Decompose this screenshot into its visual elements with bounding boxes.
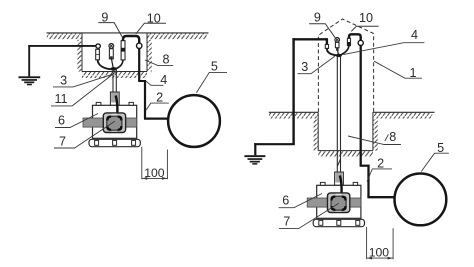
feed wire drop to ground symbol (fig2) bbox=[254, 143, 256, 155]
label 4 (fig2) bbox=[343, 28, 424, 55]
svg-text:5: 5 bbox=[211, 60, 218, 74]
grounding wire horizontal (fig1) bbox=[28, 45, 96, 47]
electrode 9 head (fig1) bbox=[109, 44, 114, 49]
svg-text:4: 4 bbox=[160, 73, 167, 87]
housing bottom notch bbox=[111, 130, 117, 132]
housing top notch bbox=[111, 114, 117, 116]
wire 2 vertical run (fig2) bbox=[367, 165, 369, 198]
label 7 (fig1) bbox=[54, 121, 115, 148]
left insulator sleeve (fig2) bbox=[325, 45, 328, 49]
wire 2 from terminal 10 down (fig1) bbox=[138, 48, 140, 81]
terminal circle 10 (fig1) bbox=[137, 43, 142, 48]
wire 2 step right (fig2) bbox=[360, 165, 369, 167]
convergence node of electrode wires (fig1) bbox=[110, 67, 117, 71]
cable entry tube bbox=[110, 92, 119, 105]
wire 2 from terminal 10 down shaft (fig2) bbox=[360, 45, 362, 165]
right insulator sleeve (fig1) bbox=[121, 41, 125, 60]
label 3 (fig2) bbox=[298, 56, 335, 74]
terminal circle of grounding wire (fig1) bbox=[96, 44, 100, 48]
black cable into housing bbox=[116, 96, 118, 113]
svg-text:3: 3 bbox=[301, 60, 308, 74]
dimension arrows (fig2) bbox=[367, 257, 394, 260]
thick wire loop from sleeve to terminal 10 (fig1) bbox=[123, 36, 139, 43]
svg-text:100: 100 bbox=[369, 246, 390, 260]
dimension arrows (fig1) bbox=[142, 177, 168, 180]
svg-text:100: 100 bbox=[144, 166, 165, 180]
label 10 (fig1) bbox=[136, 11, 166, 34]
label 3 (fig1) bbox=[53, 74, 112, 88]
wire 2 step right (fig1) bbox=[138, 80, 145, 82]
terminal circle 10 (fig2) bbox=[358, 40, 363, 45]
svg-text:9: 9 bbox=[314, 11, 321, 25]
thick wire loop to terminal 10 (fig2) bbox=[349, 34, 361, 40]
gland plug (gray) bbox=[111, 93, 118, 103]
feed wire corner into left sleeve (fig2) bbox=[326, 39, 328, 45]
pit bottom earth hatching bbox=[82, 72, 147, 78]
machine body bbox=[93, 105, 137, 138]
wire 2 horizontal run to device 5 (fig2) bbox=[367, 196, 394, 198]
pit right wall hatch ticks bbox=[147, 40, 152, 72]
base plate slot 3 bbox=[132, 140, 136, 145]
shaft bottom earth hatching bbox=[318, 151, 373, 157]
label 6 (fig1) bbox=[55, 114, 98, 128]
label 9 (fig1) bbox=[98, 11, 122, 38]
label 10 (fig2) bbox=[351, 11, 378, 31]
middle insulator sleeve (fig2) bbox=[335, 42, 339, 50]
label 2 (fig2) bbox=[367, 156, 392, 181]
body top tab left bbox=[96, 102, 101, 105]
left electrode curved wire bbox=[98, 60, 111, 70]
right electrode curved wire (fig2) bbox=[341, 46, 349, 55]
ground symbol (fig1) bbox=[19, 76, 41, 85]
svg-text:2: 2 bbox=[156, 91, 163, 105]
label 1 (fig2) bbox=[374, 61, 422, 80]
label 8 (fig2) bbox=[348, 130, 401, 145]
device 5 circle (fig1) bbox=[168, 95, 220, 147]
middle insulator sleeve (fig1) bbox=[109, 49, 113, 59]
machine unit 6/7 (fig1) bbox=[83, 92, 140, 147]
dashed enclosure 1 (fig2) bbox=[318, 19, 373, 112]
base plate slot 2 bbox=[113, 140, 117, 145]
shaft left wall hatch ticks bbox=[314, 119, 319, 151]
shaft band (gray) bbox=[83, 118, 137, 127]
dimension 100 line (fig1) bbox=[142, 177, 168, 179]
label 5 (fig2) bbox=[421, 141, 449, 172]
device 5 circle (fig2) bbox=[395, 174, 447, 226]
svg-text:10: 10 bbox=[359, 11, 373, 25]
svg-text:8: 8 bbox=[162, 53, 169, 67]
pit bottom line bbox=[82, 71, 147, 73]
svg-text:8: 8 bbox=[389, 130, 396, 144]
dimension 100 extension lines (fig1) bbox=[142, 147, 168, 180]
svg-text:2: 2 bbox=[377, 156, 384, 170]
conductor pair twist mark (fig2) bbox=[337, 159, 340, 167]
pit left wall bbox=[81, 33, 83, 72]
shaft right wall (fig2) bbox=[372, 112, 374, 150]
feed wire horizontal to ground (fig2) bbox=[254, 143, 295, 145]
earth hatching left of pit (fig1) bbox=[47, 33, 82, 39]
svg-text:3: 3 bbox=[60, 74, 67, 88]
pit left wall hatch ticks bbox=[77, 40, 82, 72]
svg-text:6: 6 bbox=[58, 114, 65, 128]
housing inner square bbox=[107, 116, 122, 130]
label 8 (fig1) bbox=[145, 53, 173, 67]
twin conductor pair to machine (fig1) bbox=[113, 70, 116, 93]
middle electrode wire (fig2) bbox=[337, 51, 340, 55]
pit right wall bbox=[146, 33, 148, 72]
svg-text:6: 6 bbox=[282, 193, 289, 207]
middle electrode wire bbox=[112, 59, 114, 69]
dimension 100 line (fig2) bbox=[367, 257, 394, 259]
dimension 100 extension lines (fig2) bbox=[367, 227, 394, 259]
right insulator sleeve (fig2) bbox=[347, 38, 350, 45]
body top tab right bbox=[129, 102, 133, 105]
feed wire vertical (fig2) bbox=[292, 38, 294, 144]
left electrode curved wire (fig2) bbox=[327, 48, 337, 55]
bearing housing outer (7) bbox=[103, 113, 125, 133]
ground surface line right segment (fig2) bbox=[373, 111, 435, 113]
base plate slot 1 bbox=[95, 140, 99, 145]
svg-text:4: 4 bbox=[411, 28, 418, 42]
ground surface line left segment (fig2) bbox=[269, 111, 318, 113]
housing corner brackets bbox=[107, 117, 121, 130]
machine unit 6/7 (fig2) bbox=[307, 172, 364, 227]
feed wire horizontal top (fig2) bbox=[292, 38, 328, 40]
left insulator sleeve (fig1) bbox=[96, 49, 100, 60]
label 4 (fig1) bbox=[146, 73, 167, 87]
svg-text:5: 5 bbox=[437, 141, 444, 155]
shaft right wall hatch ticks bbox=[373, 119, 378, 151]
wire 2 horizontal run to device 5 (fig1) bbox=[144, 117, 168, 119]
label 5 (fig1) bbox=[196, 60, 227, 93]
earth hatching right of shaft (fig2) bbox=[373, 113, 432, 119]
svg-text:7: 7 bbox=[283, 214, 290, 228]
wire 2 vertical run (fig1) bbox=[144, 80, 146, 119]
ground surface line (fig1) bbox=[47, 32, 209, 34]
shaft left wall (fig2) bbox=[317, 112, 319, 150]
right electrode curved wire bbox=[115, 60, 123, 69]
shaft bottom line (fig2) bbox=[318, 150, 373, 152]
earth hatching left of shaft (fig2) bbox=[269, 113, 318, 119]
grounding wire vertical (fig1) bbox=[28, 45, 30, 76]
label 2 (fig1) bbox=[146, 91, 169, 111]
svg-text:11: 11 bbox=[54, 92, 67, 106]
label 6 (fig2) bbox=[279, 193, 322, 207]
twin conductor pair down shaft (fig2) bbox=[337, 56, 340, 172]
label 9 (fig2) bbox=[309, 11, 336, 39]
base plate bbox=[89, 139, 140, 146]
electrode 9 head (fig2) bbox=[335, 38, 340, 43]
svg-text:7: 7 bbox=[59, 135, 66, 149]
convergence node of electrode wires (fig2) bbox=[336, 54, 342, 57]
label 7 (fig2) bbox=[279, 203, 339, 228]
earth hatching right of pit (fig1) bbox=[147, 33, 207, 39]
ground symbol (fig2) bbox=[244, 155, 265, 164]
label 11 (fig1) bbox=[51, 71, 116, 106]
